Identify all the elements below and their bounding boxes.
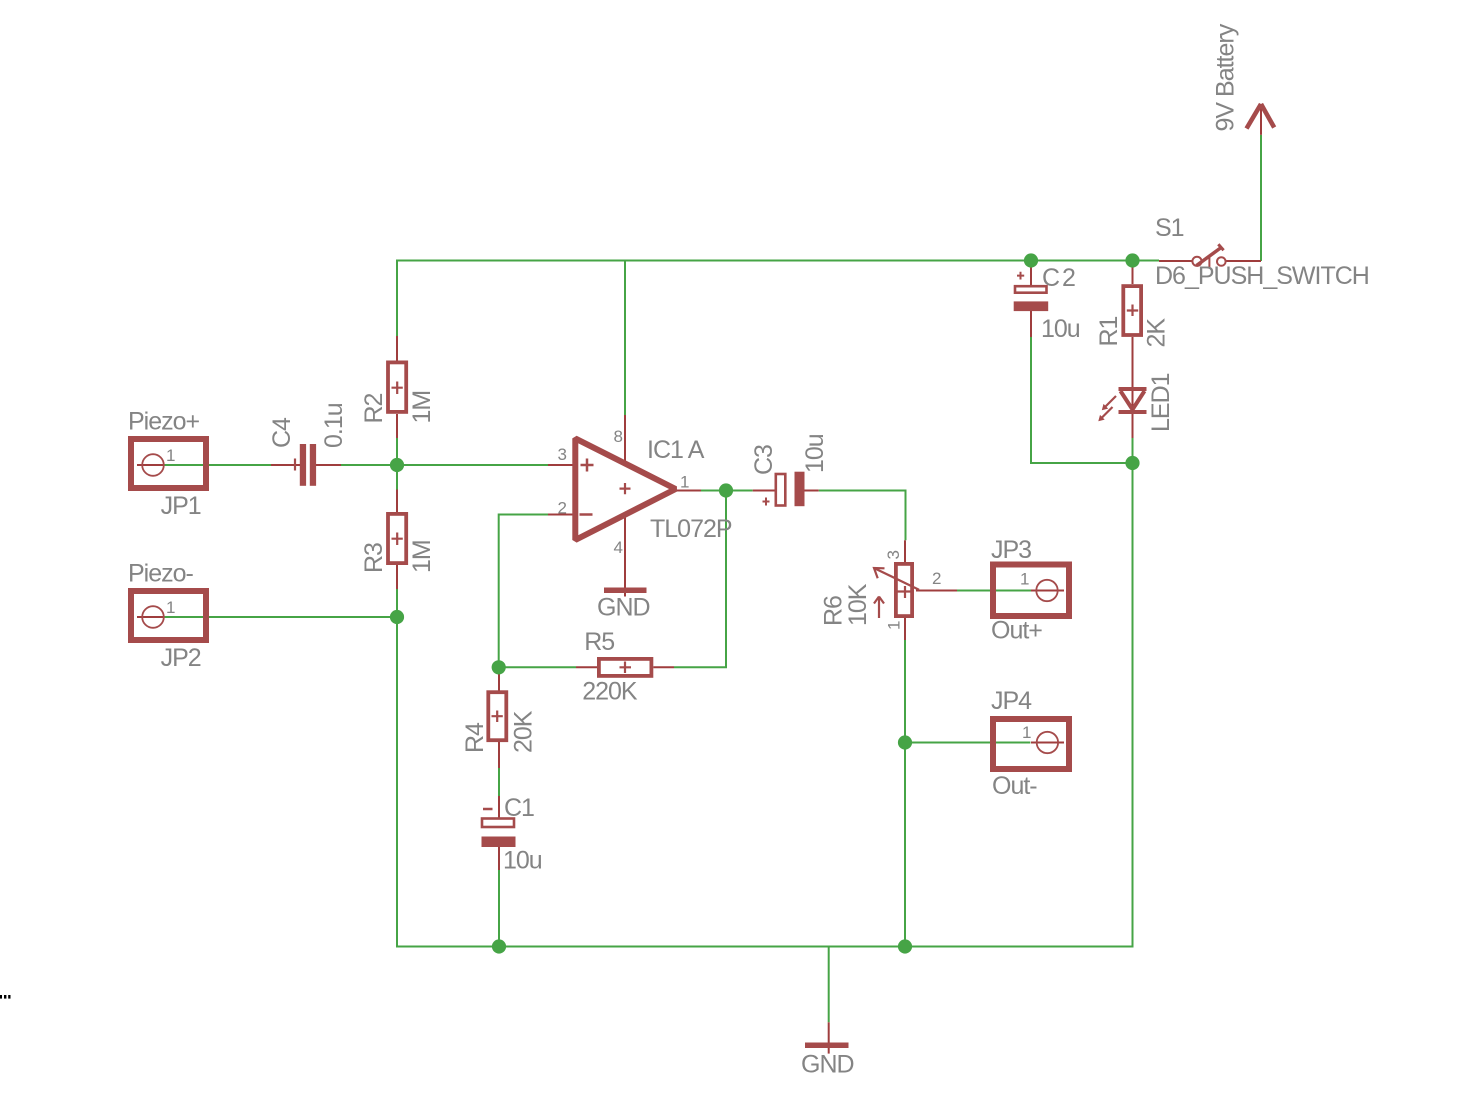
pin R4 top (498, 668, 500, 691)
wire R5 right pin up to output node (674, 491, 726, 668)
svg-text:1: 1 (1022, 723, 1031, 742)
junction at JP4 tap on R6 pin1 wire (898, 735, 912, 749)
potentiometer R6 body (896, 564, 912, 616)
LED1 cathode bar (1119, 410, 1147, 414)
pin JP3-1 stub (1031, 590, 1064, 592)
potentiometer R6 adjust up-arrow (874, 597, 884, 619)
junction at R6 bottom on GND rail (898, 939, 912, 953)
svg-text:3: 3 (558, 445, 567, 464)
LED1 triangle right edge (1133, 391, 1145, 410)
pin op-amp 8 stub (624, 415, 626, 462)
wire GND symbol drop from bottom rail (828, 947, 830, 1023)
op-amp center + mark (620, 483, 631, 494)
svg-text:10u: 10u (503, 847, 542, 875)
pin C1 bottom (498, 847, 500, 870)
wire LED1 cathode to LED node (1132, 438, 1134, 463)
pin R5 left (576, 666, 597, 668)
pin op-amp 1 output (676, 490, 701, 492)
svg-text:R1: R1 (1095, 316, 1123, 346)
pin op-amp 3 (548, 464, 575, 466)
svg-text:1: 1 (885, 621, 904, 630)
pin R1 bottom to LED1 anode (1132, 337, 1134, 412)
pin C3 left (753, 490, 775, 492)
pin R3 top (396, 490, 398, 513)
pin S1 right (1226, 260, 1261, 262)
switch S1 lever (1197, 248, 1221, 266)
pin LED1 cathode stub (1132, 412, 1134, 438)
svg-text:C4: C4 (268, 417, 296, 448)
svg-text:GND: GND (597, 594, 650, 622)
svg-text:1M: 1M (408, 391, 436, 424)
pin GND bottom stem (828, 1022, 830, 1053)
svg-text:JP2: JP2 (161, 644, 201, 672)
capacitor C2 bottom plate (solid) (1014, 301, 1048, 311)
svg-text:Piezo+: Piezo+ (128, 408, 200, 436)
svg-text:R5: R5 (584, 628, 614, 656)
resistor R5 cross mark (620, 662, 632, 674)
svg-text:9V Battery: 9V Battery (1212, 23, 1240, 131)
svg-text:2K: 2K (1143, 318, 1171, 348)
svg-text:20K: 20K (510, 710, 538, 753)
pin R1 top (1132, 261, 1134, 285)
svg-text:2: 2 (932, 569, 941, 588)
svg-text:R3: R3 (360, 543, 388, 573)
wire R3 bottom pin to node B (396, 589, 398, 617)
pin JP2-1 stub (137, 616, 164, 618)
pin C4 left (271, 464, 300, 466)
svg-text:JP4: JP4 (991, 687, 1032, 715)
svg-text:220K: 220K (582, 678, 638, 706)
svg-text:R4: R4 (461, 722, 489, 753)
wire op-amp pin 2 to feedback column (499, 515, 548, 668)
pin op-amp 2 (548, 514, 575, 516)
wire op-amp output pin 1 to C3 left pin (701, 490, 753, 492)
wire node A to R3 top pin (396, 465, 398, 490)
switch S1 left contact circle (1192, 257, 1201, 266)
svg-text:8: 8 (614, 427, 623, 446)
connector JP1 box (131, 439, 206, 488)
capacitor C1 top plate (open) (482, 819, 514, 828)
svg-text:Piezo-: Piezo- (128, 560, 194, 588)
svg-text:C1: C1 (504, 794, 534, 822)
svg-text:Out+: Out+ (991, 617, 1042, 645)
svg-text:3: 3 (884, 551, 903, 560)
junction at op-amp output node (719, 483, 733, 497)
junction at R1 top on V+ rail (1125, 253, 1139, 267)
connector JP3 box (993, 565, 1069, 617)
resistor R3 cross mark (392, 533, 403, 546)
svg-text:10u: 10u (1041, 315, 1080, 343)
junction at C2 top on V+ rail (1024, 253, 1038, 267)
resistor R1 body (1123, 286, 1141, 335)
svg-text:4: 4 (614, 538, 623, 557)
connector JP3 pin circle (1036, 580, 1057, 601)
svg-text:GND: GND (801, 1051, 854, 1079)
pin op-amp 4 stub to GND symbol (624, 516, 626, 597)
wire JP2 pin to node B (164, 616, 397, 618)
pin R6 2 wiper (916, 590, 957, 592)
LED1 emission arrow 1 (1106, 396, 1117, 407)
LED1 anode bar (triangle top) (1119, 387, 1147, 391)
pin 9V battery arrow stem (1260, 104, 1262, 135)
capacitor C4 polarity tick (294, 459, 296, 471)
svg-text:LED1: LED1 (1147, 373, 1175, 432)
LED1 emission arrow 2 (1102, 407, 1113, 418)
potentiometer R6 wiper open arrowhead (874, 568, 885, 578)
svg-text:1: 1 (166, 598, 175, 617)
resistor R2 body (388, 362, 406, 412)
svg-text:D6_PUSH_SWITCH: D6_PUSH_SWITCH (1155, 262, 1369, 290)
svg-text:0.1u: 0.1u (320, 403, 348, 448)
svg-text:1: 1 (166, 446, 175, 465)
capacitor C4 left plate (300, 444, 306, 486)
svg-text:1: 1 (680, 473, 689, 492)
potentiometer R6 wiper diagonal (876, 569, 920, 590)
svg-text:Out-: Out- (992, 772, 1037, 800)
pin R3 bottom (396, 565, 398, 589)
potentiometer R6 cross mark (898, 586, 913, 598)
op-amp IC1A triangle (575, 438, 675, 540)
node B junction at JP2/R3 (390, 610, 404, 624)
pin R6 3 top (904, 540, 906, 562)
svg-text:R2: R2 (360, 393, 388, 423)
junction at feedback node R5/R4/pin2 (492, 660, 506, 674)
resistor R2 cross mark (392, 382, 403, 395)
junction at C1 bottom on GND rail (492, 939, 506, 953)
pin C4 right (316, 464, 341, 466)
capacitor C1 minus mark (483, 808, 493, 811)
svg-text:1M: 1M (408, 540, 436, 573)
connector JP2 box (131, 591, 206, 640)
connector JP4 pin circle (1037, 732, 1058, 753)
node A junction at R2/R3/C4/pin3 (390, 458, 404, 472)
svg-text:10u: 10u (801, 434, 829, 473)
svg-text:JP3: JP3 (991, 536, 1031, 564)
resistor R5 body (599, 659, 652, 676)
wire JP1 pin to C4 left pin (164, 464, 271, 466)
wire R6 pin 1 down to JP4 node and bottom rail (904, 640, 906, 947)
9V battery supply arrow head (1247, 104, 1275, 129)
switch S1 right contact circle (1217, 257, 1226, 266)
wire op-amp pin 8 supply stub to top rail (624, 261, 626, 416)
connector JP2 pin circle (142, 606, 164, 628)
resistor R3 body (388, 514, 406, 563)
svg-text:S1: S1 (1155, 214, 1184, 242)
svg-text:TL072P: TL072P (650, 515, 732, 543)
resistor R4 body (488, 692, 506, 740)
pin C2 top (1030, 261, 1032, 286)
pin R2 bottom (396, 414, 398, 438)
pin JP4-1 stub (1031, 742, 1064, 744)
wire C1 bottom pin to bottom rail (498, 870, 500, 947)
wire GND net: node B down left side, bottom rail, up right side to LED node (397, 463, 1133, 947)
pin C3 right (805, 490, 819, 492)
connector JP4 box (993, 719, 1069, 769)
pin R5 right (653, 666, 674, 668)
pin C2 bottom (1030, 311, 1032, 337)
connector JP1 pin circle (142, 454, 164, 476)
svg-text:1: 1 (1020, 570, 1029, 589)
wire R6 wiper to JP3 pin (957, 590, 1031, 592)
capacitor C3 left plate (open) (776, 474, 786, 506)
svg-text:C3: C3 (750, 445, 778, 475)
switch S1 plunger stem (1208, 257, 1210, 269)
capacitor C2 top plate (open) (1015, 286, 1047, 293)
pin C1 top (498, 796, 500, 818)
LED1 triangle left edge (1121, 391, 1133, 410)
pin JP1-1 stub (137, 464, 164, 466)
wire C4 right pin to op-amp pin 3 (through node A) (341, 464, 548, 466)
capacitor C3 right plate (solid) (795, 472, 805, 507)
wire S1 right contact to battery riser (1260, 135, 1262, 261)
pin R6 1 bottom (904, 618, 906, 640)
op-amp inverting - mark (580, 513, 593, 516)
svg-text:IC1: IC1 (647, 436, 683, 464)
svg-text:C2: C2 (1042, 264, 1078, 292)
wire R4 bottom pin to C1 top pin (498, 768, 500, 796)
op-amp non-inverting + mark (581, 459, 594, 472)
junction at LED/C2/GND-riser node (1125, 456, 1139, 470)
capacitor C4 right plate (310, 444, 316, 486)
screenshot ellipsis dots bottom left (0, 995, 2, 999)
capacitor C2 plus mark (1017, 272, 1024, 280)
switch S1 actuator tick (1218, 244, 1223, 250)
ground symbol bar at bottom GND (805, 1042, 849, 1048)
svg-text:JP1: JP1 (161, 492, 201, 520)
resistor R1 cross mark (1127, 305, 1138, 317)
capacitor C1 bottom plate (solid) (482, 837, 516, 848)
pin R2 top (396, 336, 398, 361)
wire V+ top rail from R2 top up and across to S1 (397, 261, 1159, 337)
wire C2 bottom pin down and right to LED node (1031, 337, 1131, 463)
wire feedback node to R5 left pin (499, 666, 576, 668)
svg-text:A: A (688, 436, 705, 464)
pin S1 left (1159, 260, 1193, 262)
pin R4 bottom (498, 742, 500, 768)
ground symbol at op-amp pin 4 (604, 588, 647, 594)
wire C3 right pin across and down to R6 pin 3 (819, 491, 906, 541)
capacitor C3 plus mark (763, 498, 770, 506)
svg-text:2: 2 (558, 499, 567, 518)
resistor R4 cross mark (492, 711, 503, 723)
wire R2 bottom pin to node A (396, 438, 398, 465)
wire JP4 node to JP4 pin (905, 742, 1030, 744)
svg-text:10K: 10K (844, 583, 872, 626)
